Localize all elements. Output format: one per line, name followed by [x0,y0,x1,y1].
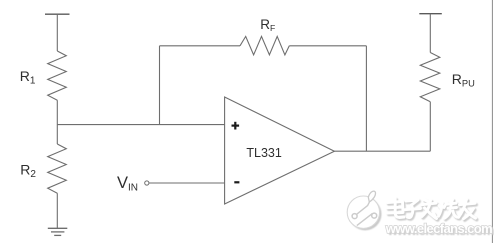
svg-text:www.elecfans.com: www.elecfans.com [385,221,492,236]
svg-text:R1: R1 [20,68,36,86]
svg-text:RPU: RPU [452,71,475,88]
svg-text:R2: R2 [20,162,36,180]
svg-text:RF: RF [260,17,275,33]
svg-text:VIN: VIN [117,174,138,194]
svg-text:TL331: TL331 [246,146,281,160]
